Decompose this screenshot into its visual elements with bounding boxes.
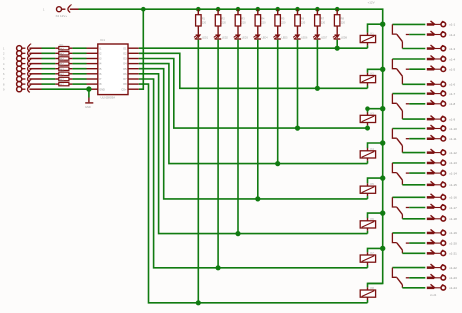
svg-text:LED8: LED8 <box>341 37 348 40</box>
svg-text:R15: R15 <box>60 65 65 67</box>
svg-text:X2 12V+: X2 12V+ <box>56 14 68 18</box>
svg-text:R16: R16 <box>60 71 65 73</box>
svg-text:R3: R3 <box>241 16 245 20</box>
svg-text:x1-18: x1-18 <box>449 217 457 221</box>
svg-text:x1-22: x1-22 <box>449 266 457 270</box>
svg-text:220: 220 <box>241 21 246 25</box>
svg-text:K4: K4 <box>371 147 375 151</box>
svg-text:IC1: IC1 <box>100 38 105 42</box>
svg-text:220: 220 <box>281 21 286 25</box>
svg-text:R6: R6 <box>301 16 305 20</box>
svg-text:x1-9: x1-9 <box>449 117 455 121</box>
svg-text:x1-8: x1-8 <box>449 102 455 106</box>
svg-text:LED2: LED2 <box>222 37 229 40</box>
svg-text:R8: R8 <box>341 16 345 20</box>
svg-text:x1-24: x1-24 <box>430 294 437 297</box>
svg-text:x1-23: x1-23 <box>449 276 457 280</box>
svg-text:R12: R12 <box>60 50 65 52</box>
svg-text:x1-15: x1-15 <box>449 183 457 187</box>
svg-text:LED4: LED4 <box>262 37 269 40</box>
svg-text:LED7: LED7 <box>321 37 328 40</box>
svg-text:x1-16: x1-16 <box>449 196 457 200</box>
svg-text:x1-17: x1-17 <box>449 206 457 210</box>
svg-text:x1-7: x1-7 <box>449 92 455 96</box>
svg-text:x1-3: x1-3 <box>449 47 455 51</box>
svg-text:220: 220 <box>222 21 227 25</box>
svg-text:LED3: LED3 <box>242 37 249 40</box>
svg-text:R18: R18 <box>60 81 65 83</box>
svg-text:x1-12: x1-12 <box>449 151 457 155</box>
svg-text:K6: K6 <box>371 217 375 221</box>
svg-text:220: 220 <box>202 21 207 25</box>
svg-text:CD+: CD+ <box>121 88 127 91</box>
svg-text:R17: R17 <box>60 76 65 78</box>
svg-text:x1-4: x1-4 <box>449 57 455 61</box>
svg-text:R2: R2 <box>222 16 226 20</box>
svg-text:R5: R5 <box>281 16 285 20</box>
svg-text:K8: K8 <box>371 286 375 290</box>
svg-text:x1-19: x1-19 <box>449 231 457 235</box>
svg-text:x1-10: x1-10 <box>449 127 457 131</box>
svg-text:K3: K3 <box>371 111 375 115</box>
svg-text:x1-6: x1-6 <box>449 83 455 87</box>
svg-text:R14: R14 <box>60 60 65 62</box>
svg-text:x1-11: x1-11 <box>449 137 457 141</box>
svg-text:GND: GND <box>99 88 105 91</box>
svg-text:K5: K5 <box>371 182 375 186</box>
svg-text:K7: K7 <box>371 251 375 255</box>
svg-text:220: 220 <box>301 21 306 25</box>
svg-text:GND: GND <box>85 105 91 109</box>
svg-text:LED5: LED5 <box>282 37 289 40</box>
svg-text:LED6: LED6 <box>301 37 308 40</box>
svg-text:R1: R1 <box>202 16 206 20</box>
svg-text:R13: R13 <box>60 55 65 57</box>
svg-text:x1-5: x1-5 <box>449 68 455 72</box>
svg-text:R7: R7 <box>321 16 325 20</box>
svg-text:ULN2803A: ULN2803A <box>101 96 116 100</box>
svg-text:220: 220 <box>261 21 266 25</box>
svg-text:x1-2: x1-2 <box>449 33 455 37</box>
svg-text:K1: K1 <box>371 31 375 35</box>
svg-text:x1-24: x1-24 <box>449 286 457 290</box>
svg-text:x1-21: x1-21 <box>449 252 457 256</box>
svg-text:x1-20: x1-20 <box>449 241 457 245</box>
svg-text:x1-1: x1-1 <box>449 23 455 27</box>
svg-text:R4: R4 <box>261 16 265 20</box>
svg-text:x1-14: x1-14 <box>449 171 457 175</box>
svg-text:K2: K2 <box>371 72 375 76</box>
svg-text:LED1: LED1 <box>202 37 209 40</box>
svg-text:+12V: +12V <box>368 1 375 5</box>
svg-text:220: 220 <box>341 21 346 25</box>
svg-text:220: 220 <box>321 21 326 25</box>
svg-text:x1-13: x1-13 <box>449 161 457 165</box>
